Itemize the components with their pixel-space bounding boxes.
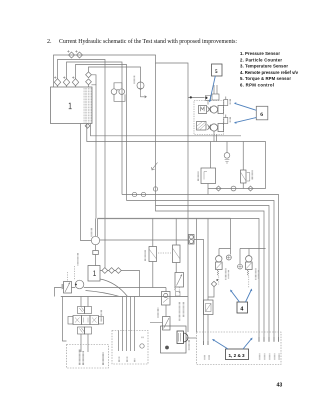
wire bus L5 xyxy=(231,219,260,342)
svg-text:5: 5 xyxy=(215,69,218,75)
wire F2 stems xyxy=(175,219,177,273)
tank heater element hatch xyxy=(84,88,91,123)
filter F0 xyxy=(241,170,247,183)
circ pump label xyxy=(157,308,159,318)
RV1 spring xyxy=(174,287,176,291)
suction check valve D1 xyxy=(54,79,60,86)
hydraulic pump HP2 xyxy=(210,124,217,131)
wire top line A xyxy=(54,55,189,332)
wire D2 stem xyxy=(66,86,68,87)
svg-text:6: 6 xyxy=(260,112,263,118)
tank drain diamond xyxy=(85,124,90,129)
dashed box gauges xyxy=(112,331,148,365)
pump P1 label xyxy=(133,76,135,84)
wire D1 stem xyxy=(57,86,59,87)
check valve D4 xyxy=(216,186,221,191)
wire RV0 left xyxy=(55,288,62,297)
svg-text:1. Pressure Sensor: 1. Pressure Sensor xyxy=(240,51,280,56)
stacked valve bracket xyxy=(91,75,96,85)
wire line D xyxy=(76,65,127,201)
small box right of circ pump xyxy=(176,292,181,297)
wire curve b xyxy=(86,291,120,297)
check valve D7 xyxy=(109,268,115,274)
pump HP1 port block xyxy=(218,106,224,114)
rpm sensor S1 label xyxy=(229,99,231,105)
wire power unit out xyxy=(186,337,197,339)
gauge G5 xyxy=(132,192,136,196)
wire bracket drop xyxy=(95,85,97,219)
wire RV0 to motor xyxy=(72,288,167,292)
callout box 6 xyxy=(256,106,268,120)
dashed box sensors xyxy=(197,332,282,365)
relief valve RV0 xyxy=(64,282,72,294)
wire diamond row xyxy=(100,271,140,297)
RRV2 label xyxy=(255,269,257,281)
svg-text:2.: 2. xyxy=(47,39,52,45)
wire particle counter line xyxy=(100,240,204,346)
check valve D8 xyxy=(116,268,122,274)
return check valve pair on top line xyxy=(69,52,75,58)
pump HP2 port block xyxy=(218,124,224,132)
gauge marks xyxy=(117,89,119,90)
callout 4 arrow b xyxy=(246,289,253,303)
gauge G8 xyxy=(238,264,243,269)
wire pump outlet xyxy=(213,131,215,141)
gauge panel wires xyxy=(119,297,135,352)
motor specs text xyxy=(79,349,81,365)
circ pump small xyxy=(162,292,171,306)
callout box 4 xyxy=(237,302,248,313)
wire drive enclosure drop xyxy=(216,135,218,142)
gauge G4 xyxy=(231,186,236,191)
wire tank to line F xyxy=(91,124,242,136)
wire motor feed xyxy=(188,97,205,99)
power unit dot xyxy=(165,346,169,350)
RRV1 drain xyxy=(218,277,220,285)
test pump box xyxy=(201,168,216,184)
flow control valve FC xyxy=(163,317,171,331)
tank label 1 xyxy=(69,103,72,109)
suction check valve D2 xyxy=(63,79,69,86)
torque sensor coupling xyxy=(206,85,220,105)
power unit motor xyxy=(177,331,184,344)
test pump label xyxy=(197,172,199,182)
coupling under aux pump xyxy=(93,251,99,255)
wire return bus drop xyxy=(96,219,98,237)
gauge pair bracket xyxy=(114,83,125,102)
wire line B xyxy=(58,60,106,271)
callout 5 arrow xyxy=(209,76,215,102)
rpm sensor S2 label xyxy=(229,117,231,123)
wire D3 stem xyxy=(75,86,77,87)
callout box 5 xyxy=(212,64,223,76)
svg-text:2. Particle Counter: 2. Particle Counter xyxy=(240,57,282,62)
aux pump label xyxy=(91,228,93,237)
solenoid valve stack xyxy=(68,307,104,335)
svg-text:Current Hydraulic schematic of: Current Hydraulic schematic of the Test … xyxy=(59,38,237,45)
wire tank to line G xyxy=(87,124,266,142)
filter F2 xyxy=(173,245,181,263)
relief valve RV1 xyxy=(175,273,184,288)
stacked check valves at tank corner xyxy=(86,72,92,78)
wire lower bus xyxy=(61,296,188,298)
particle counter PC xyxy=(189,235,195,245)
remote relief valve RRV2 xyxy=(246,256,252,262)
valve marks xyxy=(54,76,74,78)
sensor tick marks xyxy=(204,337,279,345)
svg-text:4. Remote pressure relief v/v: 4. Remote pressure relief v/v xyxy=(240,70,299,75)
check valve D5 xyxy=(248,186,253,191)
flow control label xyxy=(179,302,181,321)
wire main return bus xyxy=(98,218,231,220)
filter bracket xyxy=(247,173,250,182)
wire bus L3 xyxy=(156,206,270,342)
wire stacked stem xyxy=(88,85,90,87)
gauge panel labels xyxy=(118,357,120,363)
sensor labels xyxy=(204,355,206,360)
wire line C xyxy=(67,62,123,195)
RRV2 spring xyxy=(247,270,249,276)
junction dot xyxy=(216,279,218,281)
filter F1 xyxy=(149,247,157,262)
RV0 spring xyxy=(62,284,64,289)
wire strainer drop xyxy=(207,315,209,346)
wire x208 drop xyxy=(207,219,209,301)
aux pump P2 xyxy=(91,236,99,244)
main pump P1 xyxy=(137,82,144,89)
wire aux pump left xyxy=(81,124,92,241)
wire bus L4 xyxy=(156,206,265,342)
flow arrow xyxy=(152,163,158,171)
strainer box xyxy=(204,300,214,315)
suction check valve D3 xyxy=(72,79,78,86)
motor M3 xyxy=(75,280,84,289)
gauge G6b xyxy=(153,187,157,191)
RRV2 drain xyxy=(248,277,250,289)
wire bus L2 xyxy=(127,201,275,342)
wire D9 drop xyxy=(208,287,214,297)
power unit label xyxy=(188,340,190,351)
wire curve a xyxy=(100,279,128,297)
hydraulic pump HP1 xyxy=(210,106,217,113)
wire return run xyxy=(208,188,266,190)
gauge G3 xyxy=(224,153,230,159)
RV0 pilot dashes xyxy=(68,266,75,282)
cooler loop xyxy=(243,142,265,189)
svg-text:5. Torque & RPM sensor: 5. Torque & RPM sensor xyxy=(240,76,291,81)
wire x196 drop xyxy=(196,219,198,333)
gauge circle G1 xyxy=(111,89,117,95)
gauge G7 xyxy=(226,255,231,260)
junction dot xyxy=(190,96,192,98)
wire X1 to X2 xyxy=(165,305,167,317)
rpm sensor S2 xyxy=(224,115,228,124)
wire relief header xyxy=(231,219,266,265)
shaft coupling X2 xyxy=(208,125,212,131)
check valve D9 xyxy=(211,281,216,286)
dashed box motor specs xyxy=(67,345,109,369)
electric motor M1 xyxy=(199,106,207,114)
shaft coupling X1 xyxy=(208,107,212,113)
power unit box xyxy=(161,326,187,353)
callout 123 arrow a xyxy=(212,339,228,349)
callout 4 arrow a xyxy=(230,290,240,303)
wire bus L1 xyxy=(122,195,279,342)
svg-text:1, 2 & 3: 1, 2 & 3 xyxy=(229,353,246,358)
gauge circle G2 xyxy=(119,89,125,95)
solenoid valve label xyxy=(100,310,102,322)
callout 6 arrow b xyxy=(234,118,256,124)
drive unit dashed enclosure xyxy=(194,101,224,135)
wire relief branch right xyxy=(248,249,250,256)
F1 F2 bypass dashes xyxy=(158,252,171,254)
callout 6 arrow a xyxy=(234,102,256,110)
test pump inner xyxy=(204,172,207,180)
RRV1 spring xyxy=(217,270,219,276)
svg-text:6. RPM control: 6. RPM control xyxy=(240,83,274,88)
wire relief branch left xyxy=(219,249,231,256)
RV1 drain xyxy=(178,287,180,293)
wire test drop xyxy=(210,142,212,169)
wire left drop xyxy=(63,297,67,342)
pump P1 drain arrow xyxy=(141,89,147,98)
remote relief valve RRV1 xyxy=(216,256,222,262)
svg-text:3. Temperature Sensor: 3. Temperature Sensor xyxy=(240,64,288,69)
pump P1 arrow xyxy=(139,82,141,90)
rpm sensor S1 xyxy=(224,97,228,106)
RV0 pilot label xyxy=(77,253,79,266)
wire center drop xyxy=(155,63,157,206)
wire line E xyxy=(89,67,141,82)
tank 1 xyxy=(51,87,93,124)
gauge G3 ticks xyxy=(225,160,230,163)
wire valve stems xyxy=(81,297,88,353)
test section gauge stem xyxy=(226,142,228,153)
wire test box drop xyxy=(207,184,209,195)
filter F1 label xyxy=(144,250,146,261)
wire F1 stems xyxy=(152,219,154,288)
pump unit box 1 xyxy=(88,266,100,282)
electric motor M2 hatched box xyxy=(197,122,207,131)
valve marks xyxy=(67,50,77,52)
RRV1 label xyxy=(225,269,227,281)
callout box 123 xyxy=(226,349,249,360)
junction dot xyxy=(205,97,207,99)
gauge G6 xyxy=(141,192,145,196)
svg-text:4: 4 xyxy=(240,307,243,313)
check valve D6 xyxy=(102,268,108,274)
callout 123 arrow b xyxy=(243,338,253,350)
filter label xyxy=(251,171,253,181)
gauge panel circle xyxy=(140,344,144,348)
svg-text:43: 43 xyxy=(277,383,283,389)
